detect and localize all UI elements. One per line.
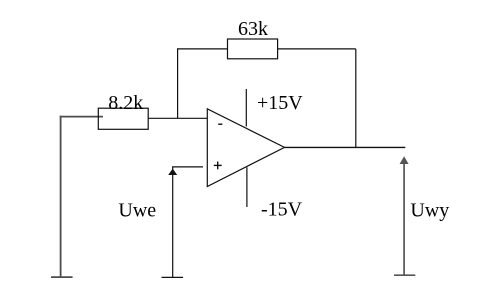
svg-text:63k: 63k	[238, 18, 268, 40]
resistor R2 63k	[228, 39, 278, 59]
arrow Uwe vertical line	[172, 167, 174, 278]
wire: R1 output to inverting input	[148, 117, 207, 119]
power rail -15V line	[246, 167, 248, 207]
arrow Uwe ground bar	[162, 276, 184, 278]
svg-text:8.2k: 8.2k	[108, 92, 143, 114]
op-amp U1 inverting input label -	[218, 123, 222, 125]
arrow Uwy vertical line	[403, 158, 405, 275]
wire: feedback top right segment	[278, 48, 356, 50]
wire: input source vertical segment	[60, 116, 62, 277]
wire: feedback top left segment	[178, 48, 228, 50]
op-amp U1	[207, 109, 284, 187]
ground GND1 (input side)	[51, 276, 73, 278]
wire: input source horizontal segment	[60, 116, 103, 118]
wire: feedback left vertical	[177, 48, 179, 118]
arrow Uwy ground bar	[394, 274, 415, 276]
svg-text:Uwe: Uwe	[118, 200, 156, 222]
arrow Uwe arrowhead	[168, 169, 177, 175]
svg-text:-15V: -15V	[261, 199, 303, 221]
op-amp U1 non-inverting input label +	[214, 162, 222, 170]
resistor R1 8.2k	[98, 108, 148, 129]
power rail +15V line	[245, 89, 247, 127]
wire: feedback right vertical	[355, 49, 357, 148]
arrow Uwy arrowhead	[400, 156, 409, 164]
wire: non-inverting input	[172, 166, 203, 168]
svg-text:+15V: +15V	[257, 92, 303, 114]
wire: output	[285, 146, 406, 148]
svg-text:Uwy: Uwy	[410, 199, 449, 221]
